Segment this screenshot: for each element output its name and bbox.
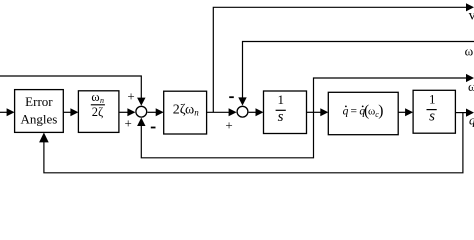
svg-text:ω: ω [368,105,375,117]
node C branch up to right output wc [314,74,474,112]
wire S2 to integrator 1 [249,108,264,116]
block 2zwn [164,91,207,134]
node D outer feedback down and around to Error Angles bottom [39,113,463,173]
wire output q to right edge [455,109,474,117]
block qdot = qdot(wc) [328,92,398,134]
wire input from right edge into S2 top [238,42,474,106]
svg-text:2ζω: 2ζω [173,103,195,118]
block integrator 1/s first [264,91,307,134]
summing junction S2 [237,106,248,117]
svg-text:n: n [100,96,104,105]
wire integrator1 to qdot block [306,108,328,116]
svg-text:): ) [378,102,383,119]
svg-text:ω: ω [465,43,474,58]
svg-text:1: 1 [278,92,285,107]
svg-text:s: s [429,109,435,125]
block integrator 1/s second [413,90,455,133]
svg-text:+: + [225,117,232,132]
svg-text:q: q [469,112,474,127]
wire top-left input down into summing junction S1 [0,76,146,106]
svg-text:Angles: Angles [20,111,57,126]
summing junction S1 [136,106,147,117]
node A branch up to top-right output [213,3,474,112]
wire qdot block to integrator 2 [398,108,413,116]
svg-text:n: n [194,108,199,118]
wire Error Angles to wn/2z block [63,108,78,116]
minus sign top input S2 [229,96,234,98]
svg-text:=: = [351,105,358,117]
svg-text:ω: ω [91,90,99,104]
block Error Angles [15,90,64,133]
node C branch down inner feedback into S1 bottom [137,112,313,158]
svg-text:v: v [469,8,474,23]
wire S1 to 2zwn block [147,108,163,116]
wire 2zwn to summing junction S2 [207,108,237,116]
wire input left into Error Angles [0,108,15,116]
svg-text:2ζ: 2ζ [92,105,103,119]
svg-text:s: s [278,109,284,125]
block wn/2z [78,90,119,133]
svg-text:1: 1 [429,92,436,107]
svg-text:ω: ω [468,79,474,94]
minus sign bottom input S1 [151,127,156,129]
wire wn/2z to summing junction S1 [119,108,135,116]
svg-text:+: + [127,89,134,104]
svg-text:+: + [125,115,132,130]
svg-text:Error: Error [25,94,53,109]
